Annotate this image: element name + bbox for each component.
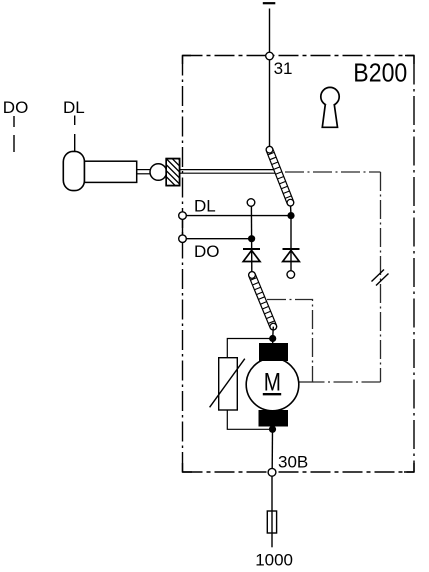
wire node to DO junction <box>250 206 252 238</box>
wire segment between DL and DO terminals <box>182 219 184 235</box>
terminal 31 <box>266 52 274 60</box>
wire motor to terminal 30B <box>271 429 273 468</box>
junction DL node <box>287 212 294 219</box>
label DO (outside left) <box>3 98 29 117</box>
label B200 <box>353 58 407 88</box>
svg-text:DO: DO <box>3 98 29 117</box>
lock cylinder (hatched) <box>164 139 181 192</box>
junction motor top <box>269 335 276 342</box>
terminal below D2 <box>287 271 295 279</box>
resistor R (PTC) <box>210 358 245 410</box>
svg-text:DL: DL <box>63 98 85 117</box>
label DL (inside box) <box>194 197 216 216</box>
svg-text:B200: B200 <box>353 58 407 88</box>
DO dashed leader <box>13 116 15 152</box>
svg-text:1000: 1000 <box>255 550 293 569</box>
terminal 30B <box>268 468 276 476</box>
node terminal above DL wire <box>247 199 255 207</box>
DL dashed leader <box>74 116 76 152</box>
wire S1 bottom to DL junction <box>289 203 292 216</box>
wire terminal 31 to switch S1 <box>269 60 271 147</box>
label DO (inside box) <box>194 242 220 261</box>
wire DO junction to switch S2 <box>251 239 253 273</box>
junction DO node <box>248 235 255 242</box>
wire DO <box>183 238 252 240</box>
terminal DL <box>179 212 187 220</box>
junction motor bottom <box>269 426 276 433</box>
svg-text:DL: DL <box>194 197 216 216</box>
key head <box>63 151 84 190</box>
wire junction to motor <box>272 339 274 345</box>
wire ground to terminal 31 <box>269 9 271 53</box>
diode D1 <box>243 249 260 262</box>
label 30B <box>278 453 308 472</box>
keyhole symbol <box>321 87 339 127</box>
label 1000 <box>255 550 293 569</box>
svg-text:31: 31 <box>274 59 293 78</box>
terminal DO <box>179 235 187 243</box>
label DL (outside left) <box>63 98 85 117</box>
svg-text:DO: DO <box>194 242 220 261</box>
key shaft <box>85 161 137 182</box>
fuse 1000 <box>267 511 276 533</box>
ball joint <box>150 164 167 181</box>
wire resistor branch bottom <box>227 410 272 429</box>
motor M1 <box>246 343 299 427</box>
svg-text:30B: 30B <box>278 453 308 472</box>
mechanical linkage from S1 (dash-dot) <box>285 172 381 382</box>
wire resistor branch top <box>227 339 272 359</box>
wire below fuse <box>271 533 273 547</box>
wire DL junction to diode D2 <box>290 216 292 271</box>
wire S2 bottom to motor junction <box>272 327 275 339</box>
key link lines <box>137 170 151 174</box>
wire 30B to fuse <box>271 476 273 511</box>
label 31 <box>274 59 293 78</box>
mechanical double link to switch S1 <box>180 170 278 174</box>
svg-text:M: M <box>264 368 281 396</box>
diode D2 <box>283 249 300 262</box>
ground <box>263 2 276 4</box>
mechanical linkage from S2 (dash-dot) <box>267 300 313 383</box>
box B200 outline <box>183 56 415 473</box>
switch S2 (motor-driven contact) <box>248 271 278 331</box>
wire DL <box>183 215 292 217</box>
linkage break symbol (double slash) <box>372 270 389 286</box>
switch S1 (key-operated contact) <box>265 145 295 207</box>
